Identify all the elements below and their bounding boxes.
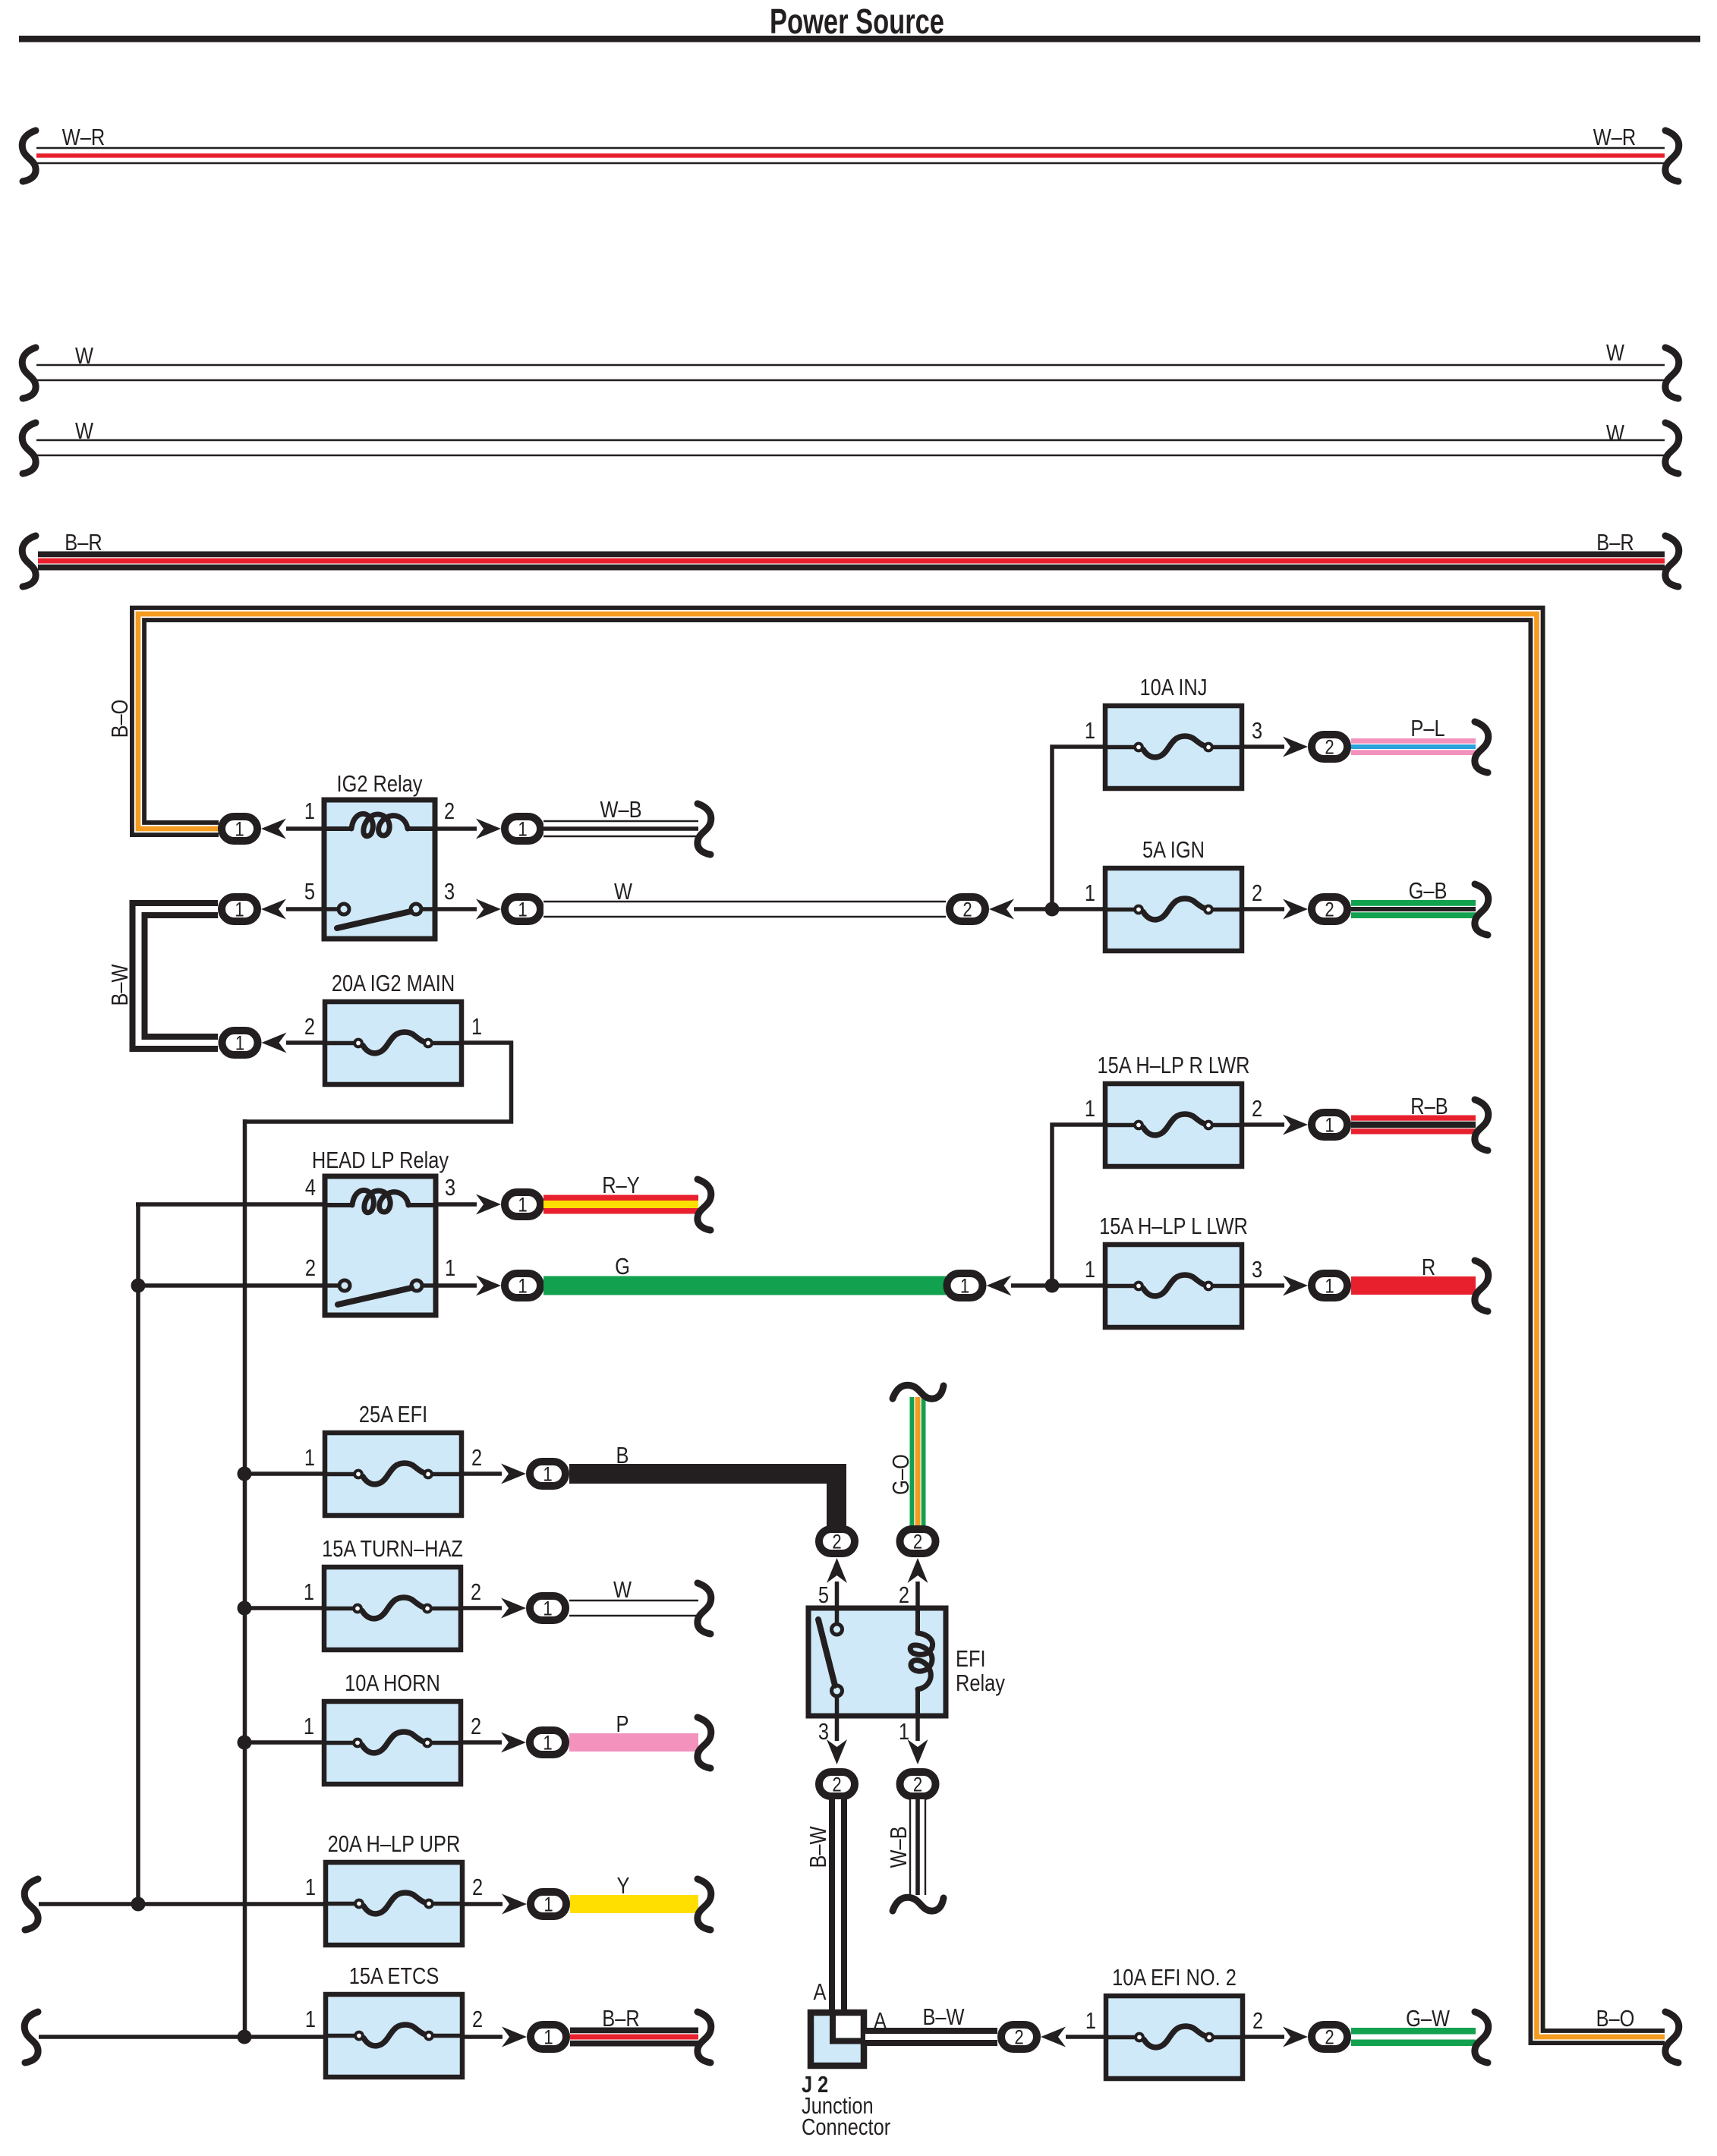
wire B-R left break: [22, 536, 36, 587]
svg-text:W: W: [75, 343, 93, 370]
junction HEAD LP pin2 node: [131, 1279, 146, 1293]
svg-text:1: 1: [235, 899, 244, 922]
connector oval 1 (15A H-LP L LWR pin1): [947, 1273, 1012, 1298]
svg-text:W: W: [1606, 340, 1624, 367]
svg-text:3: 3: [445, 1175, 455, 1201]
wire W-R left break: [22, 131, 36, 181]
wire HEAD LP pin4 lead: [136, 1202, 325, 1207]
svg-text:1: 1: [1085, 880, 1095, 907]
wire P-L break: [1475, 722, 1489, 773]
connector oval 1 (IG2 pin1): [222, 817, 324, 841]
label EFI Relay: [956, 1646, 1006, 1697]
svg-text:2: 2: [1325, 2027, 1334, 2050]
junction H-LP L LWR pin1 node: [1045, 1279, 1060, 1293]
svg-text:20A H–LP UPR: 20A H–LP UPR: [328, 1831, 461, 1858]
svg-text:EFI: EFI: [956, 1646, 986, 1673]
svg-text:5: 5: [304, 879, 315, 905]
junction 25A EFI pin1 node: [238, 1467, 252, 1481]
svg-text:2: 2: [832, 1774, 841, 1797]
wire Y (yellow): [570, 1873, 698, 1904]
wire W upper left break: [22, 348, 36, 398]
connector oval 2 (10A INJ pin3): [1242, 735, 1347, 759]
svg-text:W–R: W–R: [62, 124, 105, 151]
svg-text:W: W: [613, 1577, 632, 1604]
wire W-B (white/black): [543, 797, 698, 829]
wire G-W (green/white): [1351, 2006, 1476, 2037]
wire B-W vertical (EFI pin3 to J2): [829, 1799, 847, 2013]
wire R-B (red/black): [1351, 1094, 1476, 1125]
wire ETCS feed: [39, 2035, 326, 2039]
svg-text:1: 1: [235, 1033, 244, 1056]
svg-text:G–B: G–B: [1409, 878, 1448, 905]
wire B-O right break: [1665, 2012, 1679, 2063]
connector oval 2 (EFI Relay pin1): [900, 1716, 936, 1796]
svg-text:5: 5: [818, 1582, 829, 1609]
pin label A (J2 top): [814, 1979, 827, 2006]
wire R-Y (red/yellow): [543, 1172, 698, 1204]
svg-text:1: 1: [543, 2027, 553, 2050]
wire R (red): [1351, 1254, 1476, 1286]
svg-text:1: 1: [304, 1445, 315, 1471]
label J2 name: [802, 2072, 890, 2141]
svg-text:1: 1: [304, 798, 315, 825]
pin label 2 (EFI Relay top): [899, 1582, 909, 1609]
svg-text:2: 2: [305, 1255, 316, 1282]
fuse 15A TURN-HAZ: [304, 1536, 481, 1650]
svg-text:W–B: W–B: [600, 797, 641, 823]
svg-text:1: 1: [304, 1579, 314, 1606]
wire ETCS feed break: [24, 2012, 38, 2063]
fuse 15A ETCS: [305, 1963, 483, 2077]
svg-text:P–L: P–L: [1410, 716, 1444, 742]
wire P break: [698, 1717, 711, 1768]
svg-text:G: G: [615, 1254, 630, 1280]
wire W-R (white/red): [36, 124, 1665, 156]
svg-text:R: R: [1422, 1254, 1435, 1281]
connector oval 1 (H-LP L LWR pin3): [1242, 1273, 1347, 1298]
svg-text:Connector: Connector: [802, 2114, 890, 2141]
fuse 15A H-LP L LWR: [1085, 1213, 1262, 1327]
wire HEAD LP pin3 lead: [435, 1202, 477, 1207]
wire G (green): [543, 1254, 946, 1286]
relay IG2 Relay: [304, 771, 455, 939]
label B-W left: [107, 964, 134, 1006]
svg-text:1: 1: [543, 1733, 552, 1755]
svg-text:2: 2: [1014, 2027, 1023, 2050]
svg-text:1: 1: [518, 1194, 527, 1217]
relay HEAD LP Relay: [305, 1147, 455, 1315]
connector oval 2 (EFI Relay pin2): [900, 1529, 936, 1608]
wire W-B vertical break: [893, 1897, 944, 1911]
fuse 10A INJ: [1085, 675, 1262, 788]
wire G-B (green/black): [1351, 878, 1476, 909]
svg-text:1: 1: [305, 2006, 316, 2033]
fuse 25A EFI: [304, 1402, 482, 1515]
label G-O: [888, 1454, 915, 1495]
svg-text:1: 1: [1325, 1115, 1334, 1138]
wire W lower right break: [1665, 423, 1679, 474]
fuse 10A HORN: [304, 1670, 481, 1784]
wire W-R right break: [1665, 131, 1679, 181]
svg-text:G–W: G–W: [1406, 2006, 1450, 2032]
wire IG2 pin3 lead: [435, 907, 477, 911]
wire G-B break: [1475, 884, 1489, 935]
svg-text:3: 3: [818, 1719, 829, 1745]
svg-text:1: 1: [543, 1464, 552, 1487]
label B-W vertical: [805, 1826, 832, 1868]
svg-text:15A ETCS: 15A ETCS: [349, 1963, 439, 1990]
wire B-R right break: [1665, 536, 1679, 587]
junction HORN pin1 node: [238, 1736, 252, 1750]
svg-text:1: 1: [518, 1276, 527, 1298]
wire 20A IG2 MAIN pin1 routing: [244, 1043, 512, 1122]
title Power Source: [770, 2, 944, 41]
wire TURN-HAZ pin1 lead: [244, 1606, 324, 1610]
relay EFI Relay: [808, 1608, 946, 1716]
connector oval 1 (HORN pin2): [461, 1730, 566, 1755]
wire 5A IGN pin1 lead: [1014, 907, 1105, 911]
wire feeder vertical (x322): [243, 1119, 247, 2037]
svg-text:3: 3: [444, 879, 455, 905]
wire HEAD LP pin2 lead: [138, 1283, 325, 1288]
junction 5A IGN pin1 node: [1045, 902, 1060, 917]
connector oval 1 (TURN-HAZ pin2): [461, 1596, 566, 1620]
svg-text:1: 1: [518, 899, 527, 922]
svg-text:5A IGN: 5A IGN: [1142, 837, 1205, 864]
wire B-O (black/orange) main loop: [138, 614, 1665, 2037]
connector oval 1 (IG2 pin5): [222, 897, 324, 921]
svg-text:B–O: B–O: [107, 700, 134, 738]
connector oval 1 (H-LP UPR pin2): [462, 1892, 566, 1916]
svg-text:1: 1: [1085, 718, 1095, 744]
svg-text:3: 3: [1252, 718, 1262, 744]
svg-text:2: 2: [1252, 880, 1262, 907]
wire B-W loop (IG2 pin5 to 20A IG2 MAIN): [139, 909, 219, 1043]
svg-text:2: 2: [962, 899, 972, 922]
svg-text:A: A: [814, 1979, 827, 2006]
svg-text:W: W: [614, 879, 632, 905]
connector oval 1 (20A IG2 MAIN pin2): [222, 1031, 326, 1055]
pin label 1 (EFI Relay): [899, 1719, 909, 1745]
wire HEAD LP pin1 lead: [435, 1283, 477, 1288]
svg-text:B: B: [616, 1443, 629, 1469]
svg-text:B–W: B–W: [922, 2004, 964, 2031]
pin label A (J2 right): [874, 2008, 887, 2035]
svg-text:2: 2: [1252, 1096, 1262, 1122]
wire EFI NO.2 pin1 lead: [1066, 2035, 1106, 2039]
wire B-R (ETCS, black/red): [570, 2006, 698, 2037]
junction connector J2: [811, 2011, 867, 2066]
wire W (upper): [36, 340, 1665, 373]
wire 25A EFI pin1 lead: [244, 1471, 325, 1476]
svg-text:Power Source: Power Source: [770, 2, 944, 41]
svg-text:1: 1: [1325, 1276, 1334, 1298]
junction TURN-HAZ pin1 node: [238, 1601, 252, 1616]
wire W lower left break: [22, 423, 36, 474]
connector oval 1 (25A EFI pin2): [461, 1462, 566, 1486]
junction ETCS node: [238, 2030, 252, 2044]
svg-text:1: 1: [1085, 1257, 1095, 1283]
svg-text:R–Y: R–Y: [602, 1172, 640, 1199]
svg-text:1: 1: [543, 1894, 553, 1917]
pin label 5 (EFI Relay): [818, 1582, 829, 1609]
wire H-LP UPR feed break: [24, 1879, 38, 1930]
svg-text:15A H–LP L LWR: 15A H–LP L LWR: [1099, 1213, 1248, 1240]
svg-text:2: 2: [304, 1014, 315, 1040]
svg-text:1: 1: [543, 1598, 552, 1621]
svg-text:15A H–LP R LWR: 15A H–LP R LWR: [1098, 1053, 1250, 1079]
svg-text:2: 2: [1325, 899, 1334, 922]
connector oval 1 (HEAD LP pin3): [476, 1192, 540, 1216]
junction H-LP UPR node: [131, 1897, 146, 1912]
wire R break: [1475, 1261, 1489, 1311]
svg-text:1: 1: [960, 1276, 969, 1298]
connector oval 1 (H-LP R LWR pin2): [1242, 1113, 1347, 1137]
svg-text:2: 2: [913, 1774, 922, 1797]
connector oval 1 (ETCS pin2): [462, 2025, 566, 2049]
wire R-B break: [1475, 1100, 1489, 1150]
wire W-B vertical (EFI pin1): [909, 1799, 926, 1895]
wire B (black): [569, 1443, 836, 1527]
svg-text:B–R: B–R: [602, 2006, 639, 2032]
svg-text:2: 2: [1325, 737, 1334, 760]
label B-O bottom right: [1596, 2006, 1635, 2032]
wire B-W horizontal (J2 to 10A EFI NO.2): [865, 2004, 997, 2037]
svg-text:2: 2: [913, 1531, 922, 1554]
wire H-LP L LWR pin1 lead: [1011, 1283, 1105, 1288]
connector oval 2 (EFI Relay pin3): [819, 1716, 855, 1796]
svg-text:Y: Y: [617, 1873, 630, 1899]
svg-text:W–B: W–B: [886, 1826, 912, 1868]
wire W TURN-HAZ break: [698, 1583, 711, 1634]
wire W-B break: [698, 804, 711, 855]
svg-text:1: 1: [1085, 1096, 1095, 1122]
svg-text:2: 2: [471, 1445, 482, 1471]
wire HORN pin1 lead: [244, 1740, 324, 1745]
svg-text:B–O: B–O: [1596, 2006, 1635, 2032]
svg-text:B–R: B–R: [65, 530, 102, 556]
wire R-Y break: [698, 1179, 711, 1230]
label W-B vertical: [886, 1826, 912, 1868]
svg-text:1: 1: [305, 1874, 316, 1901]
wire 10A INJ pin1 lead: [1052, 747, 1105, 909]
svg-text:1: 1: [304, 1714, 314, 1740]
wire B-R ETCS break: [698, 2012, 711, 2063]
wire B-R (black/red): [38, 530, 1665, 561]
svg-text:R–B: R–B: [1410, 1094, 1448, 1120]
connector oval 2 (J2 branch): [1001, 2025, 1066, 2049]
svg-text:B–W: B–W: [805, 1826, 832, 1868]
connector oval 2 (5A IGN pin2): [1242, 897, 1347, 921]
fuse 20A H-LP UPR: [305, 1831, 483, 1945]
svg-text:20A IG2 MAIN: 20A IG2 MAIN: [332, 971, 455, 997]
svg-text:2: 2: [472, 2006, 483, 2033]
connector oval 2 (EFI Relay pin5): [819, 1529, 855, 1608]
wire H-LP R LWR pin1 lead: [1052, 1125, 1105, 1286]
fuse 20A IG2 MAIN: [304, 971, 482, 1084]
wire W (IG2 pin3 to 5A IGN): [543, 879, 946, 909]
svg-text:2: 2: [444, 798, 455, 825]
connector oval 1 (IG2 pin2): [476, 817, 540, 841]
svg-text:10A EFI NO. 2: 10A EFI NO. 2: [1112, 1965, 1237, 1991]
svg-text:1: 1: [518, 819, 527, 842]
wire IG2 pin2 lead: [435, 826, 477, 831]
fuse 15A H-LP R LWR: [1085, 1053, 1262, 1166]
svg-text:2: 2: [1252, 2008, 1263, 2035]
svg-text:25A EFI: 25A EFI: [359, 1402, 427, 1428]
svg-text:G–O: G–O: [888, 1454, 915, 1495]
svg-text:2: 2: [832, 1531, 841, 1554]
connector oval 1 (HEAD LP pin1): [476, 1273, 540, 1298]
svg-text:W: W: [1606, 420, 1624, 447]
svg-text:HEAD LP Relay: HEAD LP Relay: [312, 1147, 449, 1174]
svg-text:2: 2: [899, 1582, 909, 1609]
label B-O left: [107, 700, 134, 738]
svg-text:1: 1: [471, 1014, 482, 1040]
wire W upper right break: [1665, 348, 1679, 398]
wire P-L (pink/blue): [1351, 716, 1476, 747]
svg-text:W–R: W–R: [1593, 124, 1636, 151]
wire G-O break: [893, 1385, 944, 1399]
svg-text:3: 3: [1252, 1257, 1262, 1283]
wire W (lower): [36, 418, 1665, 448]
svg-text:IG2 Relay: IG2 Relay: [337, 771, 424, 798]
connector oval 2 (EFI NO.2 pin2): [1243, 2025, 1347, 2049]
svg-text:2: 2: [471, 1579, 481, 1606]
title rule: [19, 36, 1700, 42]
fuse 10A EFI NO. 2: [1085, 1965, 1263, 2079]
wire G-O (green/orange): [910, 1397, 926, 1527]
connector oval 1 (IG2 pin3): [476, 897, 540, 921]
wire H-LP UPR feed: [39, 1902, 326, 1906]
svg-text:10A INJ: 10A INJ: [1140, 675, 1208, 701]
wire G-W break: [1475, 2012, 1489, 2063]
svg-text:P: P: [616, 1711, 629, 1738]
svg-text:2: 2: [471, 1714, 481, 1740]
wire feeder vertical (x182): [136, 1204, 140, 1904]
svg-text:10A HORN: 10A HORN: [345, 1670, 440, 1697]
svg-text:Relay: Relay: [956, 1670, 1006, 1697]
fuse 5A IGN: [1085, 837, 1262, 951]
svg-text:B–R: B–R: [1596, 530, 1634, 556]
connector oval 2 (5A IGN pin1): [950, 897, 1014, 921]
svg-text:1: 1: [235, 819, 244, 842]
svg-text:W: W: [75, 418, 93, 445]
pin label 3 (EFI Relay): [818, 1719, 829, 1745]
svg-text:1: 1: [899, 1719, 909, 1745]
svg-text:B–W: B–W: [107, 964, 134, 1006]
svg-text:2: 2: [472, 1874, 483, 1901]
svg-text:15A TURN–HAZ: 15A TURN–HAZ: [322, 1536, 463, 1563]
wire W (TURN-HAZ): [569, 1577, 698, 1608]
wire Y break: [698, 1879, 711, 1930]
svg-text:1: 1: [1085, 2008, 1096, 2035]
wire P (pink): [569, 1711, 698, 1742]
svg-text:1: 1: [445, 1255, 455, 1282]
svg-text:4: 4: [305, 1175, 316, 1201]
